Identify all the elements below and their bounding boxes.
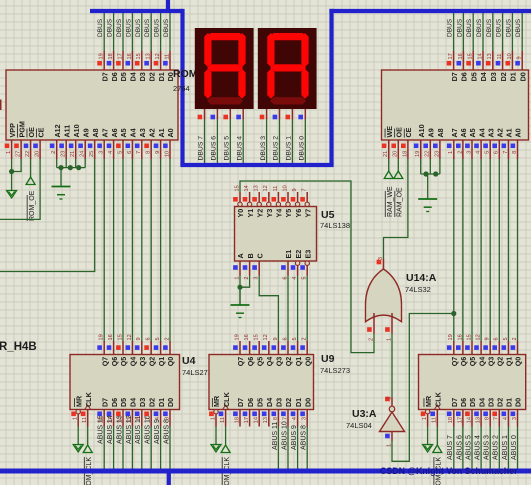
svg-text:14: 14 (477, 53, 483, 59)
wire DBUS to RAM D0 (521, 11, 523, 51)
bus ABUS bottom entry (167, 471, 171, 485)
wire DBUS to RAM D4 (482, 11, 484, 51)
svg-text:D1: D1 (505, 398, 514, 407)
svg-text:CE: CE (404, 127, 413, 137)
wire RAM A1 to latch Q1 (507, 159, 509, 341)
svg-text:11: 11 (432, 417, 438, 423)
svg-text:19: 19 (448, 334, 454, 340)
svg-text:12: 12 (263, 334, 269, 340)
svg-text:DBUS: DBUS (154, 18, 161, 37)
svg-text:MR: MR (212, 395, 221, 407)
svg-text:1: 1 (234, 277, 240, 280)
svg-text:D6: D6 (459, 398, 468, 407)
svg-text:ABUS 5: ABUS 5 (465, 435, 472, 460)
label U9 (320, 353, 350, 375)
svg-text:10: 10 (164, 151, 170, 157)
svg-text:Y3: Y3 (265, 209, 274, 218)
svg-text:A10: A10 (417, 124, 426, 137)
wire right latch D5 to bus (465, 427, 472, 470)
wire DBUS to RAM D6 (462, 11, 464, 51)
wire RAM OE (397, 159, 399, 171)
svg-text:17: 17 (457, 417, 463, 423)
svg-text:11: 11 (220, 417, 226, 423)
svg-text:DBUS: DBUS (144, 18, 151, 37)
svg-text:D4: D4 (265, 398, 274, 407)
svg-text:7: 7 (302, 188, 308, 191)
label U3:A (346, 408, 377, 430)
svg-text:Q3: Q3 (138, 357, 147, 367)
svg-text:OE: OE (27, 127, 36, 138)
svg-text:20: 20 (35, 151, 41, 157)
wire U10 MR (423, 427, 433, 453)
svg-text:7: 7 (494, 417, 500, 420)
svg-text:Y7: Y7 (303, 209, 312, 218)
svg-text:D1: D1 (157, 398, 166, 407)
svg-text:E1: E1 (284, 250, 293, 259)
wire display DBUS 2 (279, 119, 281, 165)
label U14:A (405, 272, 437, 294)
svg-text:Q3: Q3 (275, 357, 284, 367)
svg-text:Y5: Y5 (284, 209, 293, 218)
svg-text:Q4: Q4 (477, 357, 486, 367)
svg-text:VPP: VPP (8, 123, 17, 138)
wire ABUS13 ROM to U4 (122, 159, 124, 341)
wire DBUS to RAM D1 (511, 11, 513, 51)
svg-text:Q0: Q0 (166, 357, 175, 367)
wire ABUS14 ROM to U4 (113, 159, 115, 341)
wire ABUS12 ROM to U4 (131, 159, 133, 341)
wire ROM A12-A9 ground net (57, 159, 85, 168)
svg-text:9: 9 (273, 337, 279, 340)
wire ROM VPP/PGM net (12, 159, 22, 186)
svg-text:19: 19 (99, 53, 105, 59)
svg-text:A0: A0 (514, 128, 523, 137)
inverter U3:A 74LS04 (380, 397, 405, 448)
svg-text:DBUS: DBUS (107, 18, 114, 37)
ground RAM address (418, 174, 437, 212)
svg-text:A10: A10 (72, 124, 81, 137)
svg-text:11: 11 (497, 54, 503, 60)
svg-text:4: 4 (155, 417, 161, 420)
svg-text:CE: CE (36, 127, 45, 137)
wire U9 D0 to bus (301, 425, 308, 469)
svg-text:3: 3 (302, 417, 308, 420)
svg-text:12: 12 (127, 334, 133, 340)
wire U5 A,B ground net (240, 276, 250, 306)
svg-text:D7: D7 (450, 72, 459, 81)
junction A11 (58, 165, 63, 170)
svg-text:25: 25 (89, 151, 95, 157)
svg-text:OE: OE (395, 127, 404, 138)
wire display DBUS 1 (291, 119, 293, 165)
ground ROM address (52, 168, 71, 199)
svg-text:6: 6 (282, 337, 288, 340)
svg-text:DBUS: DBUS (447, 18, 454, 37)
svg-text:A2: A2 (496, 128, 505, 137)
wire right latch D0 to bus (511, 427, 518, 470)
wire ROM OE (30, 159, 32, 177)
svg-text:Q7: Q7 (450, 357, 459, 367)
junction Q7 net (451, 311, 456, 316)
svg-text:15: 15 (136, 53, 142, 59)
svg-text:9: 9 (155, 151, 161, 154)
svg-text:17: 17 (108, 417, 114, 423)
junction VPP/PGM (9, 169, 14, 174)
wire RAM A4 to latch Q4 (480, 159, 482, 341)
svg-text:D5: D5 (468, 398, 477, 407)
svg-text:D4: D4 (477, 398, 486, 407)
wire U4 D2 to bus (145, 415, 152, 469)
svg-text:18: 18 (234, 417, 240, 423)
bus DBUS bottom bracket (180, 163, 333, 167)
svg-text:23: 23 (434, 151, 440, 157)
svg-text:6: 6 (127, 151, 133, 154)
svg-text:DBUS 4: DBUS 4 (236, 136, 243, 161)
svg-text:RAM_OE: RAM_OE (397, 187, 404, 217)
svg-text:Q1: Q1 (157, 357, 166, 367)
svg-text:ABUS 0: ABUS 0 (511, 435, 518, 460)
svg-text:3: 3 (512, 417, 518, 420)
svg-text:2: 2 (164, 337, 170, 340)
svg-text:15: 15 (468, 53, 474, 59)
svg-text:ROM: ROM (173, 68, 198, 80)
wire U4 D7 to bus (98, 415, 105, 469)
svg-text:DBUS: DBUS (125, 18, 132, 37)
svg-text:Q6: Q6 (459, 357, 468, 367)
svg-text:13: 13 (476, 417, 482, 423)
svg-text:21: 21 (383, 151, 389, 157)
svg-text:12: 12 (155, 53, 161, 59)
svg-text:21: 21 (70, 151, 76, 157)
wire ABUS8 ROM to U4 (169, 159, 171, 341)
svg-text:A0: A0 (166, 128, 175, 137)
svg-text:18: 18 (108, 53, 114, 59)
svg-text:8: 8 (512, 151, 518, 154)
svg-text:D7: D7 (100, 398, 109, 407)
svg-text:5: 5 (155, 337, 161, 340)
wire RAM A2 to latch Q2 (498, 159, 500, 341)
svg-text:22: 22 (425, 151, 431, 157)
svg-text:DBUS: DBUS (466, 18, 473, 37)
svg-text:DBUS: DBUS (456, 18, 463, 37)
wire U14 out to RAM CE (384, 159, 408, 259)
svg-text:Q6: Q6 (246, 357, 255, 367)
svg-text:6: 6 (494, 151, 500, 154)
svg-text:A3: A3 (138, 128, 147, 137)
svg-text:74LS138: 74LS138 (320, 221, 350, 230)
terminal RAM_OE (394, 171, 404, 217)
svg-text:D4: D4 (479, 72, 488, 81)
svg-text:Q6: Q6 (110, 357, 119, 367)
wire DBUS to ROM D5 (122, 11, 124, 51)
svg-text:D5: D5 (119, 398, 128, 407)
junction RAM A8 (433, 171, 438, 176)
svg-text:D5: D5 (119, 72, 128, 81)
wire display DBUS 5 (229, 119, 231, 165)
svg-text:D7: D7 (236, 398, 245, 407)
svg-text:74LS32: 74LS32 (405, 285, 431, 294)
svg-text:5: 5 (302, 277, 308, 280)
wire ABUS9 ROM to U4 (160, 159, 162, 341)
RAM 6116 U2 (382, 51, 529, 159)
wire U5 Y0 to U14 input 2 (240, 181, 374, 353)
svg-text:3: 3 (466, 151, 472, 154)
svg-text:A5: A5 (119, 128, 128, 137)
svg-text:6: 6 (146, 337, 152, 340)
svg-text:12: 12 (476, 334, 482, 340)
svg-text:D6: D6 (246, 398, 255, 407)
svg-text:D0: D0 (514, 398, 523, 407)
svg-text:7: 7 (136, 151, 142, 154)
svg-text:A12: A12 (53, 124, 62, 137)
wire RAM A10-A8 ground net (421, 159, 440, 174)
junction U5 A/B (237, 285, 242, 290)
svg-text:23: 23 (61, 151, 67, 157)
terminal U9 CLK ROM_CLK (221, 427, 231, 485)
svg-text:CLK: CLK (222, 391, 231, 407)
wire display DBUS 3 (266, 119, 268, 165)
wire DBUS to RAM D7 (453, 11, 455, 51)
svg-text:MR: MR (424, 395, 433, 407)
svg-text:74LS273: 74LS273 (320, 366, 350, 375)
net labels DBUS left (97, 18, 170, 37)
svg-text:4: 4 (503, 417, 509, 420)
svg-text:B: B (246, 253, 255, 258)
svg-text:10: 10 (507, 53, 513, 59)
svg-text:Q2: Q2 (147, 357, 156, 367)
svg-text:C: C (255, 253, 264, 258)
svg-text:8: 8 (146, 151, 152, 154)
svg-text:Q3: Q3 (486, 357, 495, 367)
wire ABUS10 ROM to U4 (150, 159, 152, 341)
decoder U5 74LS138 (233, 185, 316, 279)
wire right latch D2 to bus (493, 427, 500, 470)
svg-text:15: 15 (234, 185, 240, 191)
svg-text:ABUS 1: ABUS 1 (502, 435, 509, 460)
wire right latch D4 to bus (475, 427, 482, 470)
svg-text:D4: D4 (129, 398, 138, 407)
wire U9 MR (211, 427, 221, 453)
svg-text:U9: U9 (321, 353, 335, 365)
svg-text:A11: A11 (62, 125, 71, 138)
wire U4 D3 to bus (135, 416, 142, 469)
bus ABUS bottom (0, 469, 531, 474)
svg-text:11: 11 (273, 186, 279, 192)
wire U4 D0 to bus (163, 419, 170, 469)
svg-text:D3: D3 (138, 72, 147, 81)
svg-text:1: 1 (210, 417, 216, 420)
svg-text:9: 9 (292, 188, 298, 191)
net labels DBUS right (447, 18, 523, 37)
wire U9 Q2 to U5 E1 (287, 276, 289, 342)
label R_H4B (0, 341, 37, 353)
svg-text:20: 20 (393, 151, 399, 157)
svg-text:Q7: Q7 (236, 357, 245, 367)
svg-text:D3: D3 (138, 398, 147, 407)
svg-text:16: 16 (127, 53, 133, 59)
svg-text:4: 4 (476, 151, 482, 154)
svg-text:19: 19 (415, 151, 421, 157)
svg-text:3: 3 (99, 151, 105, 154)
wire ROM A8 (0, 159, 95, 272)
terminal RAM_WE (384, 171, 394, 217)
junction A9 (76, 165, 81, 170)
svg-text:7: 7 (146, 417, 152, 420)
svg-text:4: 4 (108, 151, 114, 154)
svg-text:11: 11 (82, 417, 88, 423)
svg-text:A4: A4 (477, 128, 486, 137)
svg-text:D2: D2 (499, 72, 508, 81)
svg-text:ABUS 6: ABUS 6 (456, 435, 463, 460)
svg-text:R_H4B: R_H4B (0, 341, 37, 353)
wire DBUS to ROM D6 (113, 11, 115, 51)
svg-text:Q4: Q4 (265, 357, 274, 367)
svg-text:D5: D5 (255, 398, 264, 407)
svg-text:Y2: Y2 (255, 209, 264, 218)
svg-text:DBUS: DBUS (97, 18, 104, 37)
svg-text:24: 24 (80, 151, 86, 157)
svg-text:17: 17 (244, 417, 250, 423)
svg-text:13: 13 (146, 53, 152, 59)
svg-text:D0: D0 (518, 72, 527, 81)
svg-text:15: 15 (466, 334, 472, 340)
7-segment display DS2 (258, 28, 317, 119)
svg-text:8: 8 (136, 417, 142, 420)
label U4 (182, 355, 212, 377)
svg-text:ABUS 2: ABUS 2 (493, 435, 500, 460)
svg-text:9: 9 (517, 56, 523, 59)
svg-text:18: 18 (99, 417, 105, 423)
svg-text:17: 17 (117, 53, 123, 59)
svg-text:5: 5 (503, 337, 509, 340)
svg-text:DBUS 5: DBUS 5 (224, 136, 231, 161)
svg-text:D1: D1 (509, 72, 518, 81)
wire DBUS to RAM D5 (472, 11, 474, 51)
watermark (380, 466, 518, 476)
svg-text:CLK: CLK (84, 391, 93, 407)
svg-text:D6: D6 (110, 398, 119, 407)
svg-text:2: 2 (512, 337, 518, 340)
wire U9 Q0 to U5 E3 (306, 276, 308, 342)
bus DBUS top left (90, 9, 183, 13)
svg-text:DBUS: DBUS (515, 18, 522, 37)
svg-text:DBUS: DBUS (135, 18, 142, 37)
svg-text:3: 3 (254, 277, 260, 280)
wire DBUS to RAM D3 (492, 11, 494, 51)
svg-text:U5: U5 (321, 209, 335, 221)
svg-text:ABUS 7: ABUS 7 (447, 435, 454, 460)
svg-text:2: 2 (386, 397, 392, 400)
svg-text:MR: MR (74, 395, 83, 407)
net labels DBUS 7..0 (198, 136, 306, 161)
wire right latch D7 to bus (447, 427, 454, 470)
svg-text:DBUS: DBUS (486, 18, 493, 37)
wire U4 D5 to bus (116, 415, 123, 469)
wire RAM A5 to latch Q5 (471, 159, 473, 341)
terminal ROM_OE (26, 177, 36, 221)
latch U9 74LS273 (209, 334, 314, 426)
svg-text:6: 6 (494, 337, 500, 340)
svg-text:27: 27 (16, 151, 22, 157)
svg-text:Q0: Q0 (514, 357, 523, 367)
svg-text:14: 14 (244, 185, 250, 191)
svg-text:13: 13 (263, 417, 269, 423)
svg-text:D0: D0 (166, 398, 175, 407)
wire right latch D6 to bus (456, 427, 463, 470)
svg-text:ABUS 9: ABUS 9 (291, 425, 298, 450)
svg-text:7: 7 (503, 151, 509, 154)
svg-text:A9: A9 (427, 128, 436, 137)
terminal VPP/PGM (7, 186, 17, 198)
svg-text:8: 8 (485, 417, 491, 420)
svg-text:2: 2 (457, 151, 463, 154)
wire DBUS to ROM D4 (131, 11, 133, 51)
wire RAM A6 to latch Q6 (462, 159, 464, 341)
bus DBUS top right (329, 9, 531, 13)
svg-text:WE: WE (385, 126, 394, 138)
label U5 (320, 209, 350, 230)
svg-text:Q5: Q5 (468, 357, 477, 367)
svg-text:A3: A3 (486, 128, 495, 137)
bus DBUS left rail (180, 9, 184, 165)
svg-text:Q1: Q1 (294, 357, 303, 367)
svg-text:Q2: Q2 (496, 357, 505, 367)
svg-text:A4: A4 (129, 128, 138, 137)
svg-text:16: 16 (108, 334, 114, 340)
svg-text:2: 2 (244, 277, 250, 280)
wire U9 Q3 to U5 C (259, 276, 278, 342)
svg-text:D2: D2 (284, 398, 293, 407)
svg-text:DBUS 7: DBUS 7 (198, 136, 205, 161)
svg-text:DBUS 3: DBUS 3 (260, 136, 267, 161)
svg-text:Q7: Q7 (100, 357, 109, 367)
svg-text:A7: A7 (450, 128, 459, 137)
svg-text:Y0: Y0 (236, 209, 245, 218)
svg-text:9: 9 (485, 337, 491, 340)
wire DBUS to ROM D0 (169, 11, 171, 51)
svg-text:1: 1 (73, 417, 79, 420)
wire ABUS11 ROM to U4 (141, 159, 143, 341)
svg-text:5: 5 (292, 337, 298, 340)
wire right latch D1 to bus (502, 427, 509, 470)
svg-text:D0: D0 (303, 398, 312, 407)
svg-text:19: 19 (234, 334, 240, 340)
svg-text:Y1: Y1 (246, 209, 255, 218)
wire U4 D4 to bus (126, 415, 133, 469)
svg-text:A6: A6 (110, 128, 119, 137)
svg-text:13: 13 (127, 417, 133, 423)
svg-text:D5: D5 (469, 72, 478, 81)
wire U4 D1 to bus (154, 419, 161, 469)
svg-text:74LS273: 74LS273 (182, 368, 212, 377)
wire U3 in to Q7 net (392, 314, 454, 462)
svg-text:U14:A: U14:A (406, 272, 437, 284)
svg-text:15: 15 (117, 334, 123, 340)
left edge pin fragment (0, 100, 2, 111)
svg-text:12: 12 (263, 185, 269, 191)
svg-text:9: 9 (136, 337, 142, 340)
svg-text:18: 18 (448, 417, 454, 423)
svg-text:1: 1 (6, 151, 12, 154)
svg-text:D2: D2 (147, 398, 156, 407)
wire U9 Q1 to U5 E2 (297, 276, 299, 342)
label ROM ref (173, 68, 198, 93)
svg-text:CSDN @Knight Von Schumacher: CSDN @Knight Von Schumacher (380, 466, 518, 476)
junction RAM A9 (423, 171, 428, 176)
svg-text:2: 2 (368, 338, 374, 341)
svg-text:6: 6 (282, 277, 288, 280)
bus DBUS right rail (329, 9, 333, 165)
